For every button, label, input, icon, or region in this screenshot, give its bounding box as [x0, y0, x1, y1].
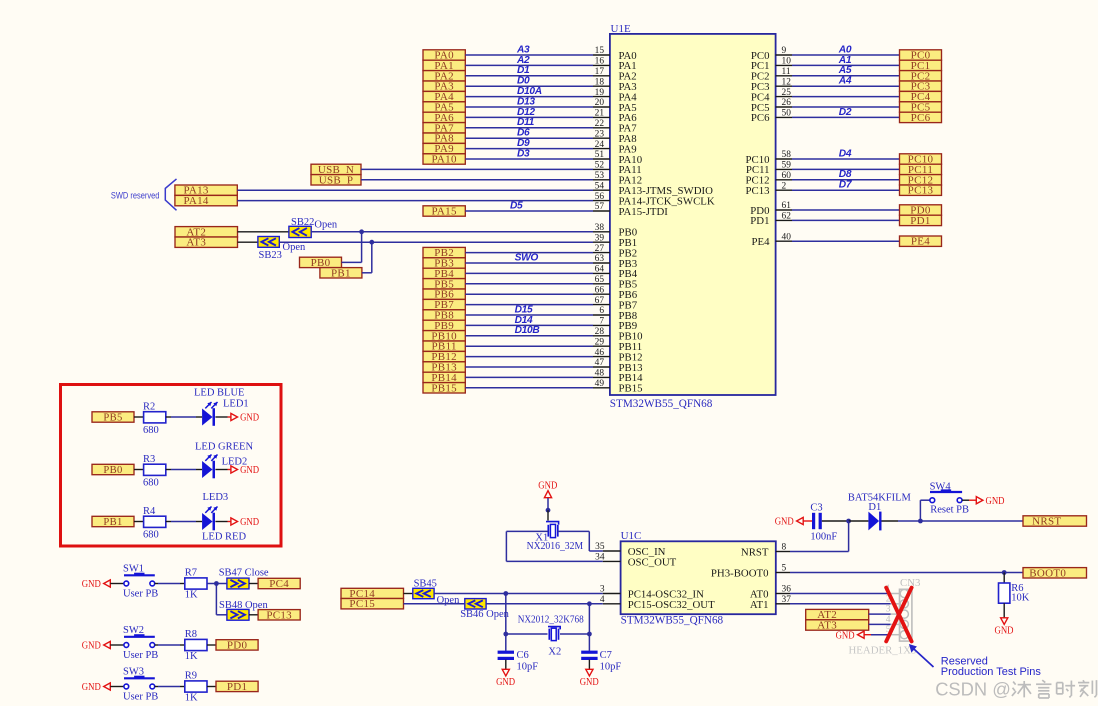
svg-text:CSDN @: CSDN @: [935, 678, 1011, 699]
svg-text:LED RED: LED RED: [202, 531, 246, 542]
svg-text:R4: R4: [143, 506, 156, 517]
svg-text:D2: D2: [839, 107, 852, 118]
svg-text:PA14: PA14: [183, 195, 208, 207]
svg-text:U1C: U1C: [621, 530, 642, 542]
svg-text:D10A: D10A: [517, 86, 542, 97]
svg-text:AT3: AT3: [817, 620, 837, 632]
svg-text:PB1: PB1: [331, 267, 351, 279]
svg-text:OSC_OUT: OSC_OUT: [628, 556, 677, 568]
svg-text:SB23: SB23: [259, 250, 282, 261]
svg-text:PA15-JTDI: PA15-JTDI: [619, 206, 669, 218]
svg-text:PC13: PC13: [745, 185, 769, 197]
svg-text:D14: D14: [515, 315, 533, 326]
svg-text:R9: R9: [185, 671, 197, 682]
svg-text:GND: GND: [82, 682, 101, 693]
svg-text:680: 680: [143, 529, 159, 540]
svg-text:GND: GND: [496, 677, 515, 688]
svg-text:10K: 10K: [1011, 592, 1029, 603]
svg-text:4: 4: [886, 615, 891, 625]
svg-text:C3: C3: [810, 502, 822, 513]
svg-text:NX2012_32K768: NX2012_32K768: [518, 614, 584, 625]
svg-text:A2: A2: [516, 55, 530, 66]
svg-text:PA10: PA10: [432, 154, 457, 166]
svg-text:HEADER_1X5: HEADER_1X5: [849, 644, 917, 656]
svg-text:PB15: PB15: [431, 382, 457, 394]
svg-text:STM32WB55_QFN68: STM32WB55_QFN68: [621, 615, 724, 627]
svg-text:A3: A3: [516, 44, 530, 55]
svg-text:PB5: PB5: [103, 413, 122, 424]
svg-text:C6: C6: [517, 650, 529, 661]
svg-text:NRST: NRST: [1032, 516, 1061, 528]
svg-text:PC4: PC4: [269, 578, 289, 590]
svg-text:10pF: 10pF: [517, 661, 539, 672]
svg-text:1K: 1K: [185, 590, 198, 601]
svg-text:D8: D8: [839, 169, 852, 180]
svg-text:User PB: User PB: [123, 589, 158, 600]
svg-text:R2: R2: [143, 401, 155, 412]
svg-text:PC6: PC6: [751, 112, 770, 124]
svg-text:SW1: SW1: [123, 564, 144, 575]
svg-text:PH3-BOOT0: PH3-BOOT0: [711, 568, 769, 580]
svg-text:SW2: SW2: [123, 625, 144, 636]
svg-text:GND: GND: [240, 413, 259, 424]
svg-text:D15: D15: [515, 304, 533, 315]
svg-text:1K: 1K: [185, 693, 198, 704]
svg-text:PC15-OSC32_OUT: PC15-OSC32_OUT: [628, 599, 715, 611]
svg-text:D0: D0: [517, 76, 530, 87]
svg-text:SW4: SW4: [930, 481, 952, 492]
svg-text:D13: D13: [517, 96, 535, 107]
svg-text:NRST: NRST: [741, 547, 769, 559]
svg-text:SB46 Open: SB46 Open: [460, 609, 509, 620]
svg-text:D9: D9: [517, 138, 530, 149]
svg-text:GND: GND: [986, 496, 1005, 507]
svg-text:GND: GND: [580, 677, 599, 688]
svg-text:User PB: User PB: [123, 650, 158, 661]
svg-text:AT3: AT3: [186, 237, 206, 249]
svg-text:SWD reserved: SWD reserved: [111, 190, 159, 200]
svg-text:PD0: PD0: [227, 639, 248, 651]
svg-text:R7: R7: [185, 568, 197, 579]
svg-text:D12: D12: [517, 107, 535, 118]
svg-text:PD1: PD1: [910, 215, 930, 227]
svg-text:X2: X2: [548, 646, 561, 657]
svg-text:PD1: PD1: [227, 681, 247, 693]
svg-text:Open: Open: [283, 242, 306, 253]
svg-text:PC15: PC15: [349, 598, 375, 610]
svg-text:GND: GND: [82, 579, 101, 590]
svg-text:R3: R3: [143, 454, 155, 465]
svg-text:Reset PB: Reset PB: [930, 504, 969, 515]
svg-text:A5: A5: [838, 65, 852, 76]
svg-text:BAT54KFILM: BAT54KFILM: [848, 492, 912, 503]
svg-text:D3: D3: [517, 148, 530, 159]
svg-text:D11: D11: [517, 117, 535, 128]
svg-text:PA15: PA15: [432, 206, 457, 218]
svg-text:PC6: PC6: [911, 112, 931, 124]
svg-text:C7: C7: [600, 650, 612, 661]
svg-text:USB_P: USB_P: [319, 174, 354, 186]
svg-text:SB22: SB22: [291, 217, 314, 228]
svg-text:PC13: PC13: [908, 185, 934, 197]
svg-text:SB47 Close: SB47 Close: [219, 567, 269, 578]
svg-text:PE4: PE4: [752, 236, 771, 248]
svg-text:LED1: LED1: [223, 398, 249, 409]
svg-text:680: 680: [143, 477, 159, 488]
svg-text:LED BLUE: LED BLUE: [194, 387, 244, 398]
svg-text:1K: 1K: [185, 651, 198, 662]
svg-text:GND: GND: [836, 630, 855, 641]
svg-text:LED2: LED2: [222, 456, 248, 467]
svg-text:A4: A4: [838, 76, 852, 87]
svg-text:D10B: D10B: [515, 325, 540, 336]
svg-text:SWO: SWO: [515, 252, 539, 263]
svg-text:User PB: User PB: [123, 692, 158, 703]
svg-text:D5: D5: [510, 201, 523, 212]
svg-text:3: 3: [886, 605, 891, 615]
svg-text:R8: R8: [185, 629, 197, 640]
svg-text:680: 680: [143, 425, 159, 436]
svg-text:LED3: LED3: [203, 492, 229, 503]
svg-text:PB15: PB15: [619, 383, 643, 395]
svg-text:GND: GND: [82, 641, 101, 652]
svg-text:PD1: PD1: [750, 215, 769, 227]
svg-text:LED GREEN: LED GREEN: [195, 441, 253, 452]
svg-text:PC13: PC13: [266, 609, 292, 621]
svg-text:NX2016_32M: NX2016_32M: [527, 541, 584, 552]
svg-text:D6: D6: [517, 128, 530, 139]
svg-text:GND: GND: [995, 625, 1014, 636]
svg-text:Open: Open: [314, 220, 337, 231]
svg-text:D1: D1: [517, 65, 530, 76]
svg-text:A0: A0: [838, 44, 852, 55]
svg-text:U1E: U1E: [611, 23, 631, 35]
svg-text:PB0: PB0: [103, 465, 122, 476]
svg-text:A1: A1: [838, 55, 852, 66]
svg-text:100nF: 100nF: [810, 531, 837, 542]
svg-text:BOOT0: BOOT0: [1029, 567, 1066, 579]
svg-text:SB45: SB45: [414, 578, 437, 589]
svg-text:PE4: PE4: [911, 236, 930, 248]
svg-text:10pF: 10pF: [600, 661, 622, 672]
svg-text:SW3: SW3: [123, 667, 144, 678]
svg-text:AT1: AT1: [750, 599, 769, 611]
svg-text:D4: D4: [839, 148, 852, 159]
svg-text:GND: GND: [775, 517, 794, 528]
svg-text:D1: D1: [868, 502, 881, 513]
svg-text:GND: GND: [538, 481, 557, 492]
svg-text:D7: D7: [839, 180, 853, 191]
svg-text:Production Test Pins: Production Test Pins: [941, 666, 1042, 678]
svg-text:GND: GND: [240, 517, 259, 528]
svg-text:PB1: PB1: [103, 517, 122, 528]
svg-text:STM32WB55_QFN68: STM32WB55_QFN68: [610, 398, 713, 410]
